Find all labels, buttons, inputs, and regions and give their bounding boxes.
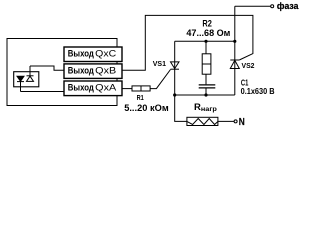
svg-text:0.1x630 В: 0.1x630 В [241, 87, 275, 96]
svg-text:R2: R2 [202, 19, 212, 29]
svg-text:VS1: VS1 [153, 59, 166, 68]
svg-text:Выход: Выход [68, 66, 94, 76]
svg-text:фаза: фаза [277, 1, 299, 12]
svg-text:Выход: Выход [68, 83, 94, 93]
svg-text:QхВ: QхВ [95, 66, 116, 76]
svg-text:VS2: VS2 [242, 61, 255, 70]
svg-text:R1: R1 [137, 93, 144, 102]
svg-text:QхС: QхС [95, 49, 117, 59]
svg-text:47...68 Ом: 47...68 Ом [186, 28, 230, 39]
svg-text:N: N [239, 117, 245, 128]
svg-text:Выход: Выход [68, 49, 94, 59]
svg-text:5...20 кОм: 5...20 кОм [124, 103, 169, 114]
svg-text:QхА: QхА [95, 83, 116, 93]
